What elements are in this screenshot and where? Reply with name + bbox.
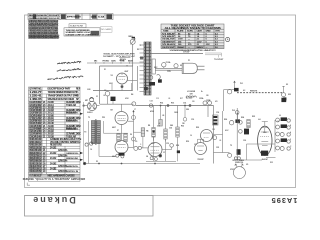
svg-text:8: 8 bbox=[290, 125, 291, 127]
wire drop 1 bbox=[153, 106, 155, 128]
wire left of V5 bbox=[236, 108, 238, 160]
wire tb cross bbox=[214, 133, 223, 135]
svg-text:.05: .05 bbox=[162, 115, 164, 117]
amplifier schematic bbox=[83, 37, 291, 179]
wire drop 3 bbox=[177, 106, 179, 128]
svg-text:C: C bbox=[290, 146, 292, 148]
wire top bus to T1 bbox=[87, 62, 144, 64]
svg-text:.1: .1 bbox=[140, 144, 141, 146]
wire B+ rail bbox=[136, 105, 214, 107]
wire ground rail bbox=[84, 163, 200, 165]
svg-text:MOLDED 10%: MOLDED 10% bbox=[66, 113, 78, 115]
label pot value blob bbox=[132, 37, 135, 39]
remote switch S3 bbox=[283, 86, 285, 93]
terminal dot 2 bbox=[237, 157, 240, 160]
svg-text:SW: SW bbox=[288, 94, 291, 96]
svg-text:C12: C12 bbox=[166, 143, 169, 145]
wire V3 to C9 bbox=[128, 146, 134, 148]
density overlays on tables bbox=[28, 18, 56, 21]
plus mark v bbox=[279, 114, 281, 116]
capacitor C14 hanging bbox=[184, 106, 186, 118]
svg-text:TUBULAR: TUBULAR bbox=[66, 104, 76, 107]
terminal 3 bbox=[235, 111, 239, 115]
V3 base blob bbox=[119, 153, 125, 156]
faint box right of notes bbox=[101, 27, 113, 32]
junction dot bbox=[189, 105, 191, 107]
V5 internal electrodes bbox=[260, 128, 269, 146]
wire C2 up bbox=[107, 90, 109, 93]
junction blob below R11 bbox=[177, 150, 180, 153]
svg-text:330: 330 bbox=[192, 101, 195, 103]
scattered component value labels bbox=[85, 36, 292, 158]
SCHEMATIC-START bbox=[25, 15, 298, 216]
wire R3 down bbox=[112, 101, 114, 104]
junction dot bbox=[167, 105, 169, 107]
T1 primary taps (left stubs) bbox=[140, 44, 145, 46]
svg-text:R25: R25 bbox=[270, 162, 273, 164]
terminal speaker minus bbox=[228, 153, 232, 157]
svg-text:24-102: 24-102 bbox=[50, 147, 57, 150]
svg-text:C2: C2 bbox=[104, 90, 106, 92]
wire V1 plate stub right bbox=[128, 80, 138, 82]
wire AC line to plug bbox=[155, 67, 182, 69]
wire to speaker field bbox=[214, 152, 230, 154]
svg-text:470K: 470K bbox=[150, 110, 155, 113]
svg-text:6SL7: 6SL7 bbox=[112, 156, 116, 158]
svg-text:470K: 470K bbox=[125, 97, 130, 100]
svg-text:6L6 GC: 6L6 GC bbox=[262, 159, 269, 161]
svg-text:V2: V2 bbox=[110, 110, 113, 112]
terminal 2 bbox=[239, 130, 243, 134]
svg-text:56K: 56K bbox=[170, 125, 174, 127]
svg-text:PAPER 600V: PAPER 600V bbox=[66, 127, 79, 130]
svg-text:.05: .05 bbox=[219, 140, 221, 142]
svg-text:VOLUME CONTROL W/SWITCH: VOLUME CONTROL W/SWITCH bbox=[50, 142, 81, 144]
capacitor C15 hanging bbox=[160, 106, 162, 120]
handwritten note line 2 bbox=[57, 68, 81, 72]
svg-text:6.3V: 6.3V bbox=[225, 130, 229, 132]
capacitor C18 bbox=[213, 136, 217, 140]
wire V1 cathode bbox=[121, 84, 123, 91]
terminal on T1 right bbox=[149, 76, 153, 80]
svg-text:CERAMIC DISC: CERAMIC DISC bbox=[66, 101, 81, 104]
svg-text:C13: C13 bbox=[150, 101, 153, 103]
V5 base blob bbox=[261, 151, 268, 156]
speaker SPK1 bbox=[233, 167, 245, 179]
svg-text:1MEG: 1MEG bbox=[128, 36, 133, 38]
svg-text:ELECTROLYTIC: ELECTROLYTIC bbox=[66, 121, 79, 123]
svg-text:MIC: MIC bbox=[85, 100, 89, 102]
svg-text:DR CK APP: DR CK APP bbox=[49, 14, 60, 17]
wire remote control dashed bbox=[237, 92, 282, 94]
svg-text:R22: R22 bbox=[252, 116, 255, 118]
svg-text:TUBULAR: TUBULAR bbox=[66, 135, 76, 138]
wire J1 to box bbox=[97, 105, 100, 107]
wire T3 left down bbox=[88, 121, 90, 164]
wire control stub bbox=[112, 62, 114, 63]
svg-text:27: 27 bbox=[43, 166, 46, 168]
blob near T1 top bbox=[140, 57, 143, 60]
wire bias left bbox=[103, 121, 105, 133]
svg-text:DESCRIPTION OF PART: DESCRIPTION OF PART bbox=[48, 88, 72, 91]
svg-text:117V 60~: 117V 60~ bbox=[183, 52, 191, 54]
svg-text:MODEL 1A395 POWER AMPLIFIER: MODEL 1A395 POWER AMPLIFIER bbox=[104, 52, 136, 55]
svg-text:6L6: 6L6 bbox=[263, 132, 267, 134]
svg-text:1W: 1W bbox=[182, 123, 185, 125]
svg-text:PHONO: PHONO bbox=[103, 61, 110, 63]
svg-text:C19: C19 bbox=[191, 119, 194, 121]
grid capacitors C4 C5 bbox=[85, 143, 88, 146]
tube V4B second triode section bbox=[201, 130, 213, 142]
terminal block TB1 bbox=[213, 115, 219, 125]
svg-text:R5: R5 bbox=[96, 161, 98, 163]
junction dot on rail bbox=[160, 105, 162, 107]
coupling chain V2-V3 bbox=[133, 110, 135, 147]
V4 pin circle 1 bbox=[150, 157, 153, 160]
svg-text:R8: R8 bbox=[130, 134, 132, 136]
svg-text:23-140: 23-140 bbox=[48, 122, 55, 125]
resistor R16 grid bbox=[247, 120, 250, 128]
svg-text:R18: R18 bbox=[176, 145, 179, 147]
output terminal strip TB2 bbox=[274, 124, 276, 152]
svg-text:T3: T3 bbox=[84, 131, 86, 133]
stamp box small bbox=[69, 24, 86, 28]
svg-text:R15: R15 bbox=[171, 103, 174, 105]
drawing number 1A395 (rotated 180) bbox=[271, 196, 298, 205]
svg-text:24: 24 bbox=[43, 157, 46, 160]
wire V4 right bbox=[162, 149, 172, 151]
svg-text:10H: 10H bbox=[190, 93, 194, 95]
svg-text:C20: C20 bbox=[243, 140, 246, 142]
svg-text:6L6: 6L6 bbox=[258, 119, 261, 121]
tube V2 (6SJ7 second stage) bbox=[115, 112, 128, 125]
resistor R9 bbox=[152, 128, 155, 138]
svg-text:S3: S3 bbox=[286, 84, 288, 86]
resistor R8 cathode bbox=[124, 134, 127, 142]
svg-text:P1: P1 bbox=[188, 60, 190, 62]
rectifier tube V6 (5Y3GT) bbox=[195, 143, 207, 155]
capacitor C2 bbox=[105, 91, 110, 96]
power switch S1 on pot bbox=[157, 75, 161, 79]
svg-text:OUTPUT TRANS: OUTPUT TRANS bbox=[232, 159, 244, 162]
wire V5 bottom bbox=[237, 159, 262, 161]
junction dot left rail bbox=[83, 105, 85, 107]
junction blob output bbox=[237, 149, 241, 155]
wire AC line top bbox=[147, 53, 204, 55]
svg-text:R12: R12 bbox=[181, 125, 184, 127]
svg-text:C22: C22 bbox=[212, 129, 215, 131]
wire feedback down bbox=[246, 144, 248, 160]
wire R9 down bbox=[153, 137, 155, 141]
wire J1 left bbox=[83, 105, 87, 107]
tube V3 (triode) bbox=[115, 141, 128, 154]
svg-text:C14: C14 bbox=[183, 102, 186, 105]
wire C10 to V4 bbox=[141, 147, 148, 149]
svg-text:SCALE NONE: SCALE NONE bbox=[70, 25, 84, 28]
wire plug prong 2 bbox=[197, 69, 204, 71]
handwritten note line 1 bbox=[57, 61, 81, 65]
wire PL1 down bbox=[223, 90, 225, 111]
svg-text:CERAMIC DISC: CERAMIC DISC bbox=[66, 117, 81, 120]
T3 winding darkening bbox=[92, 121, 95, 143]
wire PL1 left bbox=[224, 89, 235, 91]
wire tone network bbox=[119, 57, 130, 59]
svg-text:5-54: 5-54 bbox=[98, 16, 105, 19]
border frame of drawing bbox=[25, 15, 296, 188]
wire F1 stub bbox=[163, 67, 165, 68]
junction blob on T1 bbox=[144, 87, 148, 90]
filter capacitor C21A bbox=[203, 101, 207, 105]
wire shield left rail bbox=[83, 102, 85, 164]
wire left vert bbox=[98, 133, 100, 156]
svg-text:VOLTAGES MEASURED WITH VTVM -: VOLTAGES MEASURED WITH VTVM - LINE AT 11… bbox=[170, 49, 217, 52]
interstage transformer T3 bbox=[92, 121, 101, 144]
svg-text:R26: R26 bbox=[224, 119, 227, 121]
svg-text:C3: C3 bbox=[126, 66, 128, 68]
capacitor C7 (coupling) bbox=[132, 102, 136, 106]
svg-text:CARBON 10% INSULATED TYPE: CARBON 10% INSULATED TYPE bbox=[50, 138, 82, 141]
tube V4 (driver) bbox=[148, 143, 162, 157]
svg-text:NO. 1A395: NO. 1A395 bbox=[101, 28, 112, 31]
wire control stub bbox=[95, 62, 97, 63]
svg-text:C21A: C21A bbox=[199, 97, 204, 100]
svg-text:VOICE COIL: VOICE COIL bbox=[235, 162, 243, 164]
svg-text:5Y3: 5Y3 bbox=[194, 144, 197, 146]
wire chassis box left bbox=[99, 66, 101, 104]
wire bias bus bbox=[104, 132, 129, 134]
svg-text:R17: R17 bbox=[180, 98, 183, 100]
plus mark h bbox=[279, 114, 281, 116]
wire V6 top bus bbox=[198, 138, 204, 140]
V4 pin circle 2 bbox=[154, 158, 157, 161]
svg-text:T1: T1 bbox=[140, 45, 142, 47]
svg-text:R6: R6 bbox=[146, 131, 148, 133]
scan artifact mark bottom-left bbox=[27, 183, 30, 186]
T1 core box bbox=[152, 59, 155, 74]
svg-text:WIREWOUND: WIREWOUND bbox=[66, 158, 79, 160]
wire C12 down bbox=[171, 147, 173, 149]
svg-text:CARBON 10%: CARBON 10% bbox=[66, 152, 78, 155]
wire right vert 1 bbox=[213, 106, 215, 164]
svg-text:R14: R14 bbox=[160, 102, 163, 105]
svg-text:T2: T2 bbox=[230, 145, 232, 147]
wire V1 pin left bbox=[111, 83, 113, 91]
svg-text:V4: V4 bbox=[146, 155, 148, 158]
svg-text:DUKANE "QUALITY IS A TRADITION: DUKANE "QUALITY IS A TRADITION" AMPLIFIE… bbox=[23, 178, 86, 181]
AC plug P1 bbox=[182, 63, 197, 73]
svg-text:.05: .05 bbox=[168, 98, 170, 100]
wire V1 bottom bus bbox=[93, 90, 133, 92]
wire control stub bbox=[120, 62, 122, 63]
svg-text:SPEAKER 12 IN. P.M. 8 OHM: SPEAKER 12 IN. P.M. 8 OHM bbox=[48, 98, 75, 101]
wire feedback bbox=[247, 143, 276, 145]
svg-text:Dukane: Dukane bbox=[31, 195, 76, 205]
svg-text:GND: GND bbox=[87, 89, 91, 91]
wire drop 2 bbox=[165, 106, 167, 130]
svg-text:S2: S2 bbox=[180, 65, 182, 67]
title strip top line bbox=[25, 195, 298, 197]
terminal dot 1 bbox=[234, 157, 237, 160]
svg-text:CERAMIC DISC: CERAMIC DISC bbox=[66, 133, 81, 136]
svg-text:V1: V1 bbox=[111, 75, 114, 77]
svg-text:C18: C18 bbox=[216, 112, 219, 114]
svg-text:C7: C7 bbox=[134, 109, 136, 111]
svg-text:MIC: MIC bbox=[94, 61, 98, 63]
svg-text:TRANSFORMER POWER 117V: TRANSFORMER POWER 117V bbox=[48, 91, 78, 94]
wire right of V1 box bbox=[132, 66, 134, 91]
svg-text:TRANSFORMER OUTPUT SPKR: TRANSFORMER OUTPUT SPKR bbox=[48, 95, 79, 98]
blob S1 label bbox=[158, 79, 162, 82]
svg-text:C16: C16 bbox=[169, 127, 172, 129]
svg-text:R1: R1 bbox=[104, 69, 106, 71]
filter choke L1 bbox=[186, 96, 196, 98]
corner blob bbox=[283, 97, 286, 100]
svg-text:C22: C22 bbox=[216, 147, 219, 149]
ground rail end blob bbox=[83, 162, 86, 165]
notes box bbox=[64, 28, 100, 36]
svg-text:22K: 22K bbox=[186, 109, 190, 111]
svg-text:22: 22 bbox=[43, 153, 46, 155]
svg-text:PL1: PL1 bbox=[240, 83, 243, 85]
wire right vert 2 bbox=[222, 111, 224, 153]
resistor R10 bbox=[164, 129, 167, 139]
parts table right column extra texts bbox=[66, 113, 79, 174]
resistor R7 cathode bbox=[117, 134, 120, 142]
T1 bottom tap blob bbox=[149, 82, 155, 86]
ground rail junction dots bbox=[98, 163, 100, 165]
svg-text:25-104: 25-104 bbox=[48, 120, 55, 123]
wire V3 cathode bus bbox=[99, 155, 116, 157]
resistor R3 blob bbox=[111, 97, 116, 101]
svg-text:REMOTE: REMOTE bbox=[250, 90, 258, 92]
T1 winding darkening bbox=[144, 43, 151, 95]
svg-text:6SN7: 6SN7 bbox=[151, 143, 155, 145]
svg-text:24-182: 24-182 bbox=[50, 168, 57, 171]
wire chassis box top bbox=[100, 65, 134, 67]
svg-text:6SJ7: 6SJ7 bbox=[125, 71, 129, 73]
svg-text:ECN 2140 REV: ECN 2140 REV bbox=[35, 14, 48, 17]
svg-text:21-158: 21-158 bbox=[48, 136, 55, 138]
logo Dukane (rotated 180) bbox=[31, 195, 76, 205]
svg-text:6.3: 6.3 bbox=[243, 90, 245, 92]
handwritten annotations bbox=[46, 61, 83, 80]
power transformer T1 (vertical winding ladder) bbox=[144, 42, 151, 95]
svg-text:R19: R19 bbox=[186, 141, 189, 143]
balloon A bbox=[226, 37, 230, 41]
wire plug prong 1 bbox=[197, 65, 204, 67]
svg-text:C4: C4 bbox=[90, 148, 92, 151]
pilot lamp PL2 bbox=[229, 121, 233, 125]
wire V4 bottom bus bbox=[146, 160, 176, 162]
pilot lamp PL1 bbox=[227, 90, 231, 94]
terminal 1 bbox=[239, 121, 243, 125]
svg-text:.02: .02 bbox=[103, 95, 105, 97]
svg-text:385: 385 bbox=[206, 95, 209, 97]
wire V2 plate up bbox=[121, 104, 123, 111]
additional scattered reference labels bbox=[87, 45, 273, 171]
svg-text:25-118: 25-118 bbox=[48, 134, 55, 136]
svg-text:CARBON 5%: CARBON 5% bbox=[66, 165, 78, 168]
V3 pin circles bbox=[116, 154, 119, 157]
resistor R11 bbox=[176, 127, 179, 137]
filter capacitor C21B bbox=[208, 101, 212, 105]
svg-text:B+ 360V: B+ 360V bbox=[186, 97, 193, 99]
tube socket voltage chart bbox=[161, 24, 230, 52]
svg-text:5Y3 GT: 5Y3 GT bbox=[198, 159, 205, 161]
svg-text:GAIN: GAIN bbox=[111, 60, 116, 63]
svg-text:6SJ7: 6SJ7 bbox=[109, 83, 113, 85]
svg-text:470: 470 bbox=[215, 100, 218, 103]
svg-text:R7: R7 bbox=[117, 130, 119, 132]
resistor R6 plate load bbox=[141, 128, 144, 137]
title block box (Dukane) bbox=[25, 196, 154, 217]
svg-text:V6: V6 bbox=[190, 135, 192, 137]
svg-text:CONTROL 1M: CONTROL 1M bbox=[66, 171, 78, 173]
output tube V5 (6L6) bbox=[258, 126, 272, 155]
svg-text:1A395: 1A395 bbox=[271, 196, 298, 205]
svg-text:115V: 115V bbox=[167, 71, 172, 73]
svg-text:PL2: PL2 bbox=[232, 110, 235, 112]
svg-text:R24: R24 bbox=[241, 116, 244, 119]
output terminal row 0 bbox=[276, 118, 280, 122]
svg-text:R4: R4 bbox=[131, 93, 133, 96]
svg-text:C13: C13 bbox=[156, 98, 159, 100]
revision table (top-left) bbox=[28, 14, 113, 40]
svg-text:R20: R20 bbox=[196, 127, 199, 129]
svg-text:8Ω: 8Ω bbox=[246, 164, 249, 166]
wire C2 down bbox=[107, 96, 109, 104]
wire S2 stub bbox=[175, 67, 177, 69]
wire R10 down bbox=[165, 139, 167, 141]
svg-text:C6 .05: C6 .05 bbox=[119, 60, 124, 62]
svg-text:23-114: 23-114 bbox=[48, 104, 55, 107]
svg-text:1/2W 10%: 1/2W 10% bbox=[58, 161, 68, 163]
svg-text:24-142: 24-142 bbox=[50, 157, 57, 160]
svg-text:24-101: 24-101 bbox=[48, 127, 55, 130]
wire V2 right bbox=[128, 120, 134, 122]
stage drop extensions to bottom bus bbox=[153, 137, 155, 161]
chassis box right edge bbox=[136, 66, 138, 91]
svg-text:F1 2A: F1 2A bbox=[166, 61, 171, 64]
capacitor blob C17 bbox=[244, 129, 249, 135]
svg-text:R9: R9 bbox=[148, 125, 150, 127]
svg-text:T3: T3 bbox=[88, 117, 90, 119]
wire control stub bbox=[103, 62, 105, 63]
svg-text:6SJ7: 6SJ7 bbox=[112, 127, 116, 129]
wire line cord pair bbox=[205, 52, 222, 54]
potentiometer R2 (volume) bbox=[130, 39, 135, 44]
B+ feed to rectifier bbox=[207, 106, 209, 118]
wire V2 cathode to V3 bbox=[121, 125, 123, 141]
V1 cathode dot bbox=[121, 86, 123, 88]
interlock S2 bbox=[174, 64, 178, 68]
wire V5 top cap bbox=[264, 122, 266, 127]
parts list table bbox=[23, 87, 86, 181]
svg-text:B+: B+ bbox=[201, 91, 203, 93]
wire grid bus bbox=[100, 103, 134, 105]
svg-text:R2: R2 bbox=[137, 49, 139, 51]
microphone input jack J1 bbox=[87, 101, 96, 110]
junction terminal on rail bbox=[149, 104, 152, 107]
svg-text:A: A bbox=[227, 38, 229, 42]
wire pot to box bbox=[132, 44, 134, 66]
coupling capacitor C9 bbox=[134, 146, 138, 150]
svg-text:24-122: 24-122 bbox=[50, 152, 57, 155]
handwritten note line 3 bbox=[48, 75, 83, 80]
svg-text:C9: C9 bbox=[135, 141, 137, 143]
wire R11 down bbox=[177, 137, 179, 150]
coupling capacitor C10 bbox=[138, 146, 141, 149]
